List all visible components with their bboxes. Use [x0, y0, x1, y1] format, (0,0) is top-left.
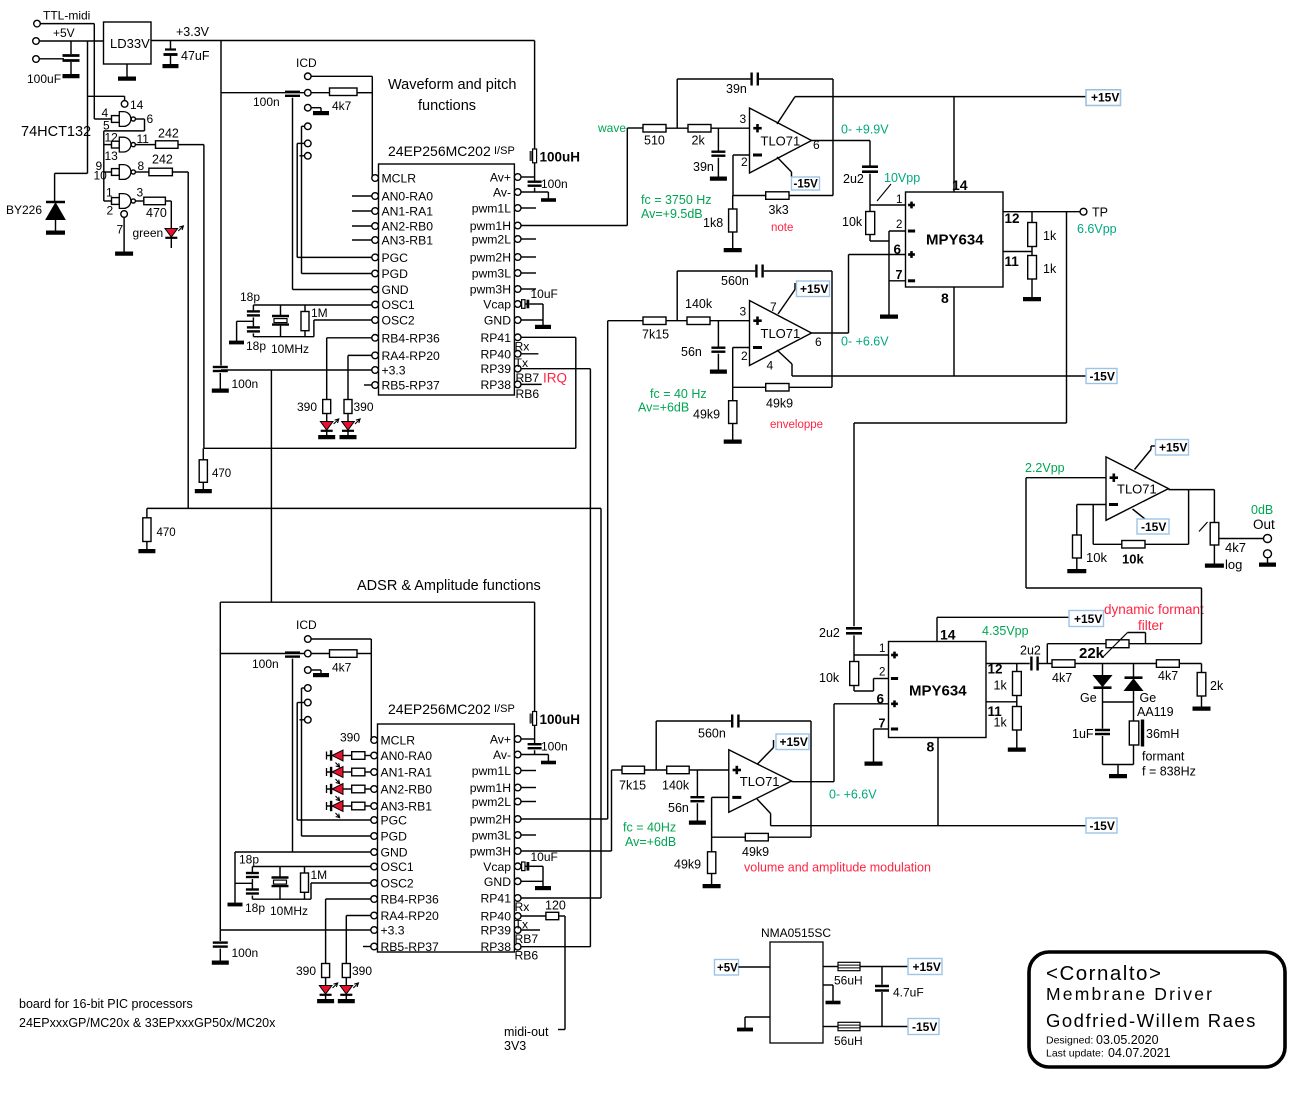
resistor 140k volume: [667, 766, 690, 774]
LED red AN0 chain: [326, 752, 328, 760]
wire formant bottom: [1103, 764, 1134, 766]
PIC1 RB5 stub: [364, 384, 372, 386]
wire +5V to module: [739, 966, 771, 968]
svg-text:RB5-RP37: RB5-RP37: [382, 379, 440, 393]
svg-text:Av-: Av-: [493, 748, 511, 762]
ground ICD1 pin3: [311, 107, 321, 109]
svg-text:+15V: +15V: [800, 282, 828, 296]
svg-text:Av=+9.5dB: Av=+9.5dB: [641, 207, 703, 221]
wire +3.3 row PIC1: [221, 369, 372, 371]
wire +3.3 row PIC2: [220, 929, 370, 931]
resistor 7k15 volume: [622, 766, 645, 774]
svg-text:filter: filter: [1138, 618, 1164, 633]
power stub -15V vol pin4: [757, 799, 771, 814]
terminal TTL-midi input: [34, 20, 41, 27]
ground osc2 mid node: [235, 882, 252, 884]
wire -15V out: [860, 1026, 908, 1028]
svg-text:6.6Vpp: 6.6Vpp: [1077, 222, 1117, 236]
svg-text:390: 390: [354, 400, 374, 414]
svg-text:enveloppe: enveloppe: [770, 419, 823, 431]
svg-text:pwm2H: pwm2H: [470, 251, 511, 265]
PIC1 left pins: [372, 175, 379, 182]
wire feedback right: [832, 79, 834, 196]
svg-text:2u2: 2u2: [843, 172, 864, 186]
svg-text:PGC: PGC: [381, 814, 408, 828]
resistor 49k9 to ground env: [732, 387, 734, 400]
svg-text:pwm3H: pwm3H: [470, 283, 511, 297]
svg-text:Ge: Ge: [1140, 691, 1157, 705]
svg-text:green: green: [133, 226, 164, 240]
wire -15V rail bottom: [771, 825, 1086, 827]
svg-text:8: 8: [927, 739, 935, 755]
svg-text:100uF: 100uF: [27, 72, 61, 86]
resistor 1k upper MPY2: [1016, 664, 1018, 672]
op-amp U9 TLO71 output: [1106, 457, 1169, 520]
svg-text:board for 16-bit PIC processor: board for 16-bit PIC processors: [19, 997, 193, 1011]
svg-text:1k: 1k: [994, 716, 1008, 730]
wire Av+ node: [534, 163, 536, 177]
wire inverting input: [733, 154, 750, 156]
svg-text:PGC: PGC: [382, 251, 409, 265]
power label +15V rail: [1086, 90, 1121, 106]
wire 1k junction pin11 MPY2: [1016, 696, 1018, 707]
resistor 4k7 MCLR2 pullup: [311, 653, 329, 655]
svg-text:I/SP: I/SP: [494, 703, 515, 715]
svg-text:Av+: Av+: [490, 733, 511, 747]
ground formant: [1117, 765, 1119, 775]
svg-text:functions: functions: [418, 98, 476, 114]
terminal Out signal: [1264, 535, 1272, 543]
svg-text:Rx: Rx: [515, 340, 530, 354]
capacitor 56n volume: [696, 770, 698, 796]
crystal 10MHz PIC2: [279, 867, 281, 877]
ground 1k8: [732, 232, 734, 249]
crystal network PIC1: rails: [253, 304, 371, 306]
svg-text:2.2Vpp: 2.2Vpp: [1025, 461, 1065, 475]
svg-text:10uF: 10uF: [531, 287, 558, 301]
svg-text:39n: 39n: [726, 82, 747, 96]
ground 39n: [717, 175, 719, 178]
svg-text:4k7: 4k7: [1158, 669, 1178, 683]
svg-text:AN2-RB0: AN2-RB0: [381, 783, 433, 797]
resistor 390 on RB4: [327, 337, 372, 339]
power stub +15V env: [778, 290, 795, 315]
capacitor 1uF formant: [1102, 702, 1104, 729]
svg-text:3: 3: [740, 112, 747, 126]
capacitor 10uF Vcap PIC1: [521, 303, 528, 305]
wire 470 to green LED: [165, 200, 171, 202]
svg-text:14: 14: [130, 98, 144, 112]
svg-text:10k: 10k: [1122, 552, 1144, 567]
wire MPY1 pin2-7 ground trunk: [888, 241, 890, 314]
wire RP39 IRQ to PIC2 RP38: [521, 368, 590, 370]
resistor 10k MPY2 X2: [850, 662, 859, 686]
svg-text:22k: 22k: [1079, 645, 1105, 662]
capacitor 2u2 coupling TP: [846, 627, 862, 630]
wire node A1: [666, 127, 688, 129]
capacitor 100n on 3.3V PIC2: [213, 941, 228, 943]
svg-text:PGD: PGD: [381, 830, 408, 844]
crystal network PIC2 rails: [252, 866, 370, 868]
capacitor 100uF: [70, 41, 72, 54]
wire Av- to ground: [521, 191, 548, 193]
svg-text:RB4-RP36: RB4-RP36: [382, 331, 440, 345]
svg-text:2: 2: [741, 349, 748, 363]
svg-text:AN1-RA1: AN1-RA1: [382, 205, 434, 219]
multiplier U8 MPY634: [889, 642, 987, 738]
svg-text:39n: 39n: [693, 160, 714, 174]
power label +5V in: [715, 960, 739, 976]
capacitor 560n envelope feedback: [677, 270, 755, 272]
ground 1k divider MPY2: [1016, 730, 1018, 748]
svg-text:03.05.2020: 03.05.2020: [1096, 1033, 1159, 1047]
svg-text:12: 12: [1005, 211, 1020, 226]
svg-text:fc = 40Hz: fc = 40Hz: [623, 821, 676, 835]
svg-text:18p: 18p: [239, 853, 259, 867]
wire ADSR 3.3 rail to 100uH2: [271, 601, 534, 603]
svg-text:pwm3L: pwm3L: [472, 829, 512, 843]
svg-text:2u2: 2u2: [819, 626, 840, 640]
svg-text:3: 3: [740, 305, 747, 319]
svg-text:10uF: 10uF: [531, 850, 558, 864]
svg-text:OSC1: OSC1: [381, 860, 414, 874]
capacitor 2u2 coupling note: [869, 141, 871, 166]
svg-text:1M: 1M: [311, 306, 328, 320]
wire +3.3V rail: [151, 40, 535, 42]
svg-text:2: 2: [741, 155, 748, 169]
svg-text:MCLR: MCLR: [381, 734, 416, 748]
svg-text:RP38: RP38: [481, 378, 512, 392]
ground 10k out: [1076, 558, 1078, 570]
resistor 1M: [304, 305, 306, 312]
svg-text:0- +9.9V: 0- +9.9V: [841, 123, 889, 137]
svg-text:2k: 2k: [1210, 679, 1224, 693]
svg-text:+15V: +15V: [1074, 612, 1102, 626]
resistor 242 (gate C output): [135, 171, 149, 173]
svg-text:midi-out: midi-out: [504, 1025, 549, 1039]
resistor 49k9 feedback env: [733, 386, 766, 388]
svg-text:AN1-RA1: AN1-RA1: [381, 766, 433, 780]
svg-text:390: 390: [297, 400, 317, 414]
svg-text:10MHz: 10MHz: [270, 904, 308, 918]
wire midi-out: [559, 915, 565, 917]
svg-text:36mH: 36mH: [1146, 727, 1179, 741]
svg-text:10MHz: 10MHz: [271, 342, 309, 356]
LED red RA4: [347, 414, 349, 422]
wire out feedback: [1188, 490, 1190, 545]
multiplier U5 MPY634: [906, 192, 1004, 287]
wire PIC1 GND pin to ground: [521, 319, 543, 321]
ground 1k divider: [1031, 279, 1033, 298]
capacitor 560n volume feedback: [656, 720, 731, 722]
svg-text:8: 8: [138, 159, 145, 173]
svg-text:+15V: +15V: [1091, 91, 1119, 105]
wire vol feedback right: [810, 721, 812, 837]
wire MPY1 pin8 to -15V rail: [953, 287, 955, 376]
power label -15V out: [1137, 519, 1169, 534]
svg-text:GND: GND: [382, 283, 409, 297]
svg-text:100n: 100n: [232, 946, 259, 960]
svg-text:0- +6.6V: 0- +6.6V: [841, 335, 889, 349]
svg-text:TTL-midi: TTL-midi: [43, 9, 90, 23]
svg-text:TP: TP: [1092, 206, 1108, 220]
svg-text:49k9: 49k9: [742, 845, 769, 859]
wire MPY2 pin2 stub: [874, 678, 889, 680]
pin 7 GND 74HCT132: [121, 211, 128, 218]
svg-text:pwm3L: pwm3L: [472, 267, 512, 281]
resistor 1k lower: [1028, 256, 1037, 280]
crystal 10MHz: [280, 305, 282, 315]
resistor 470 (gate D output): [135, 200, 143, 202]
wire 4k7 to MCLR2: [357, 653, 371, 655]
svg-text:+15V: +15V: [1159, 441, 1187, 455]
svg-text:AN0-RA0: AN0-RA0: [381, 749, 433, 763]
wire 22k row left: [1046, 644, 1048, 664]
wire row midi to PIC1: [204, 447, 576, 449]
svg-text:1k: 1k: [994, 679, 1008, 693]
wire 140k to +: [710, 320, 750, 322]
svg-text:4k7: 4k7: [1225, 540, 1246, 555]
wire MPY1 pin7 stub: [889, 280, 906, 282]
svg-text:120: 120: [545, 899, 566, 913]
wire pwm3H PIC2 to volume filter: [521, 850, 612, 852]
svg-text:-15V: -15V: [794, 179, 819, 191]
svg-text:24EP256MC202: 24EP256MC202: [388, 701, 491, 717]
svg-text:Waveform and pitch: Waveform and pitch: [388, 77, 516, 93]
diode Ge down: [1102, 664, 1104, 676]
microcontroller U2 24EP256MC202 (waveform): [379, 164, 515, 395]
wire env feedback right: [831, 271, 833, 387]
svg-text:LD33V: LD33V: [110, 36, 150, 51]
svg-text:1: 1: [106, 186, 113, 200]
svg-text:7k15: 7k15: [642, 328, 669, 342]
ground 100uF: [70, 73, 72, 76]
op-amp U3 TLO71 note: [750, 108, 812, 173]
PIC2 right pins: [514, 736, 521, 743]
svg-text:OSC2: OSC2: [382, 314, 415, 328]
wire MPY2 output pin12: [986, 663, 1030, 665]
svg-text:log: log: [1225, 557, 1242, 572]
svg-text:49k9: 49k9: [674, 858, 701, 872]
ground 56n volume: [696, 819, 698, 822]
svg-text:Av+: Av+: [490, 171, 511, 185]
svg-text:2k: 2k: [692, 134, 706, 148]
wire gate1 output loop to gates 2-4 inputs: [135, 118, 144, 120]
ground 470 Rx1: [202, 482, 204, 489]
capacitor 39n to ground: [717, 128, 719, 150]
svg-text:242: 242: [152, 153, 173, 167]
wire ICD1 pin4 to PGD: [302, 125, 305, 127]
wire TTL-midi to gate1 input: [40, 23, 94, 25]
resistor 390 on RB4-2: [326, 898, 371, 900]
wire 4k7 to MCLR: [357, 92, 372, 94]
svg-text:56n: 56n: [668, 801, 689, 815]
svg-text:0- +6.6V: 0- +6.6V: [829, 788, 877, 802]
svg-text:7: 7: [770, 300, 777, 314]
wire 3.3V down to ADSR section: [270, 370, 272, 602]
inductor 100uH (PIC1): [534, 41, 536, 150]
PIC1 right pins: [514, 174, 521, 181]
svg-text:Av-: Av-: [493, 186, 511, 200]
capacitor 47uF: [170, 41, 172, 49]
svg-text:Tx: Tx: [515, 356, 529, 370]
wire inverting input env: [733, 347, 750, 349]
svg-text:+3.3: +3.3: [382, 364, 406, 378]
svg-text:-15V: -15V: [1090, 370, 1115, 384]
power stub +15V vol: [757, 748, 774, 765]
wire ICD1 pin5 to PGC: [297, 142, 304, 144]
ground 2k: [1201, 696, 1203, 707]
resistor 10k to ground out: [1073, 535, 1082, 558]
ground LD33V: [126, 64, 128, 77]
wire +15V rail top: [795, 96, 1086, 98]
svg-text:49k9: 49k9: [693, 408, 720, 422]
wire GND2 row: [235, 851, 371, 853]
resistor 2k formant: [1201, 664, 1203, 673]
svg-text:pwm2L: pwm2L: [472, 233, 512, 247]
capacitor 2u2 series formant: [1030, 657, 1032, 671]
svg-text:10k: 10k: [819, 671, 840, 685]
wire pwm2H PIC2 to envelope filter: [521, 818, 608, 820]
svg-text:Vcap: Vcap: [483, 298, 511, 312]
svg-text:Membrane Driver: Membrane Driver: [1046, 984, 1214, 1004]
power stub -15V op-amp1: [777, 157, 792, 172]
ground 4k7 log: [1213, 545, 1215, 564]
wire Av+ node PIC2: [534, 725, 536, 739]
svg-text:7: 7: [117, 223, 124, 237]
power stub -15V env pin4: [777, 350, 792, 364]
power label +15V module: [908, 959, 942, 975]
svg-text:I/SP: I/SP: [494, 145, 515, 157]
resistor 2k: [688, 125, 711, 133]
pin 14 VCC 74HCT132: [121, 101, 128, 108]
svg-text:390: 390: [352, 964, 372, 978]
ground BY226: [55, 229, 57, 231]
svg-text:3: 3: [137, 186, 144, 200]
svg-text:560n: 560n: [698, 727, 726, 741]
capacitor 18p lower PIC2: [251, 883, 253, 888]
svg-text:MPY634: MPY634: [926, 232, 984, 249]
ground pin7: [123, 217, 125, 252]
PIC1 pwm stubs: [521, 207, 536, 209]
svg-text:24EPxxxGP/MC20x & 33EPxxxGP50x: 24EPxxxGP/MC20x & 33EPxxxGP50x/MC20x: [19, 1016, 276, 1030]
svg-text:+15V: +15V: [913, 960, 941, 974]
svg-text:GND: GND: [484, 875, 511, 889]
inductor 100uH (PIC2): [533, 712, 537, 726]
wire RP39-2 stub: [521, 929, 540, 931]
gate U1B pins 12,13,11: [112, 141, 120, 148]
svg-text:OSC1: OSC1: [382, 298, 415, 312]
gate U1A pins 4,5,6: [112, 116, 120, 123]
svg-text:Av=+6dB: Av=+6dB: [625, 835, 676, 849]
svg-text:RB4-RP36: RB4-RP36: [381, 893, 439, 907]
resistor 470 pulldown Rx1: [202, 448, 204, 460]
svg-text:100n: 100n: [541, 177, 568, 191]
resistor 10k feedback out: [1093, 543, 1122, 545]
wire -15V rail top section: [791, 364, 793, 376]
svg-text:140k: 140k: [662, 779, 690, 793]
svg-text:74HCT132: 74HCT132: [21, 124, 91, 140]
svg-text:470: 470: [146, 206, 167, 220]
LED red AN3 chain: [326, 802, 328, 810]
wire 242b down to midi2 row: [172, 171, 188, 173]
svg-text:18p: 18p: [246, 339, 266, 353]
resistor 4k7 MCLR pullup: [311, 92, 329, 94]
wire formant node row: [1075, 663, 1202, 665]
wire RP41 Rx to midi row: [521, 336, 576, 338]
svg-text:390: 390: [296, 964, 316, 978]
svg-text:fc = 3750 Hz: fc = 3750 Hz: [641, 193, 712, 207]
svg-text:1uF: 1uF: [1072, 727, 1094, 741]
svg-text:volume and amplitude modulatio: volume and amplitude modulation: [744, 861, 931, 875]
svg-text:6: 6: [147, 112, 154, 126]
terminal +5V: [33, 38, 40, 45]
wire 2k to op-amp +: [711, 127, 750, 129]
svg-text:pwm1L: pwm1L: [472, 764, 512, 778]
PIC1 AN input stubs: [352, 195, 372, 197]
svg-text:AN3-RB1: AN3-RB1: [381, 800, 433, 814]
wire PIC2 GND pin to ground: [521, 880, 543, 882]
ground 56n: [717, 368, 719, 371]
svg-text:RB7: RB7: [516, 371, 540, 385]
svg-text:7k15: 7k15: [619, 779, 646, 793]
svg-text:4.7uF: 4.7uF: [893, 986, 924, 1000]
ground 47uF: [170, 62, 172, 65]
wire node env: [666, 320, 688, 322]
gate U1C pins 9,10,8: [112, 169, 120, 176]
svg-text:Rx: Rx: [515, 900, 530, 914]
svg-text:BY226: BY226: [6, 203, 42, 217]
svg-text:100n: 100n: [541, 740, 568, 754]
svg-text:6: 6: [815, 335, 822, 349]
resistor 3k3 feedback: [733, 195, 766, 197]
inductor 36mH formant: [1129, 721, 1139, 745]
LED red RA4-2: [345, 978, 347, 986]
svg-text:AN3-RB1: AN3-RB1: [382, 234, 434, 248]
PIC2 left pins: [371, 737, 378, 744]
svg-text:1: 1: [896, 194, 902, 206]
svg-text:RP38: RP38: [481, 940, 512, 954]
wire midi2 row to PIC2 Rx: [147, 507, 601, 509]
svg-text:3k3: 3k3: [769, 203, 789, 217]
power label -15V op-amp1: [792, 177, 820, 190]
svg-text:242: 242: [158, 127, 179, 141]
svg-text:1k: 1k: [1043, 229, 1057, 243]
svg-text:IRQ: IRQ: [543, 371, 567, 386]
svg-text:TLO71: TLO71: [761, 134, 801, 149]
svg-text:GND: GND: [381, 846, 408, 860]
svg-text:AN0-RA0: AN0-RA0: [382, 190, 434, 204]
svg-text:RB6: RB6: [515, 949, 539, 963]
svg-text:-15V: -15V: [1141, 520, 1166, 534]
wire 242 to Rx row: [178, 144, 204, 146]
ground osc mid node: [237, 320, 254, 322]
wire 3.3V to ICD rail: [220, 41, 222, 366]
svg-text:04.07.2021: 04.07.2021: [1108, 1046, 1171, 1060]
wire ICD2 pin4 to PGD2: [302, 687, 305, 689]
capacitor 56n envelope: [717, 321, 719, 347]
capacitor 10uF Vcap PIC2: [521, 865, 528, 867]
svg-text:RP39: RP39: [481, 924, 512, 938]
op-amp U4 TLO71 envelope: [750, 301, 812, 366]
svg-text:fc = 40 Hz: fc = 40 Hz: [650, 387, 707, 401]
resistor 1k lower MPY2: [1013, 707, 1022, 731]
svg-text:6: 6: [877, 692, 885, 707]
svg-text:100uH: 100uH: [540, 150, 581, 165]
svg-text:56uH: 56uH: [834, 974, 863, 988]
svg-text:100n: 100n: [232, 377, 259, 391]
wire output node: [1169, 489, 1215, 491]
